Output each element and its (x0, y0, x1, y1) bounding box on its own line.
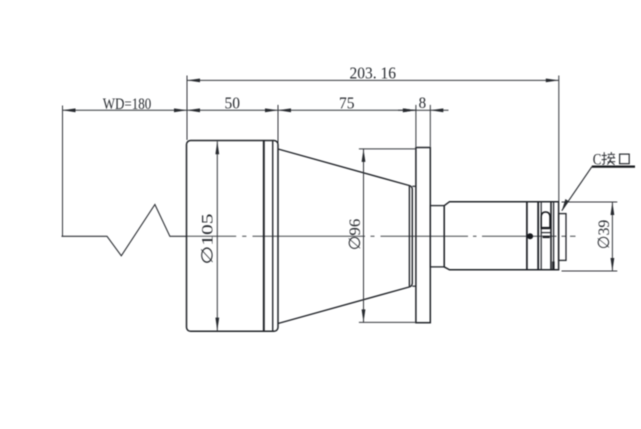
glyph 口 (620, 154, 630, 164)
dimension WD=180 (63, 106, 188, 237)
svg-text:75: 75 (339, 94, 355, 113)
big cylinder Ø105 body (187, 141, 279, 332)
svg-text:50: 50 (224, 94, 240, 113)
cone section (278, 149, 412, 324)
C-mount stub (559, 214, 566, 261)
label underline (592, 166, 635, 168)
flange (416, 148, 430, 323)
keyhole bottom bar (541, 227, 549, 229)
big cylinder inner ring line 1 (263, 141, 265, 331)
neck between cone and flange bottom edge (412, 285, 416, 287)
object plane line with zigzag break (62, 205, 188, 256)
svg-text:8: 8 (419, 95, 427, 112)
dimension Ø39 (562, 202, 618, 271)
leader line C接口 (562, 167, 592, 211)
clamp screw keyhole slot (541, 212, 550, 229)
dimension 50 (187, 109, 278, 111)
clamp column cross line (541, 232, 551, 234)
svg-text:C: C (593, 152, 602, 169)
ring line e lower thick end (552, 262, 554, 270)
barrel ring line a (526, 202, 528, 270)
clamp column left line (540, 202, 542, 270)
slot lower dark bar (543, 236, 550, 238)
big cylinder inner ring line 2 (272, 141, 274, 331)
barrel ring line e (553, 202, 555, 270)
barrel ring line b (537, 202, 539, 270)
svg-text:203. 16: 203. 16 (349, 64, 396, 83)
barrel Ø39 outline (444, 202, 558, 270)
glyph 接 (602, 152, 616, 165)
set screw dot (527, 233, 533, 239)
svg-text:∅96: ∅96 (347, 219, 364, 251)
dimension Ø96 (359, 149, 415, 323)
svg-text:WD=180: WD=180 (103, 96, 152, 113)
leader arrowhead (562, 199, 569, 211)
dimension Ø105 (216, 141, 218, 330)
cone end edge (408, 186, 410, 286)
svg-text:∅105: ∅105 (200, 214, 217, 265)
dimension 75 (278, 105, 416, 148)
barrel ring line d (550, 202, 552, 270)
svg-text:∅39: ∅39 (596, 220, 613, 250)
centerline (187, 235, 576, 237)
dimension 203.16 (187, 76, 559, 202)
neck between cone and flange top edge (412, 185, 416, 187)
dimension 8 (398, 105, 449, 147)
neck step between flange and barrel (430, 206, 444, 267)
